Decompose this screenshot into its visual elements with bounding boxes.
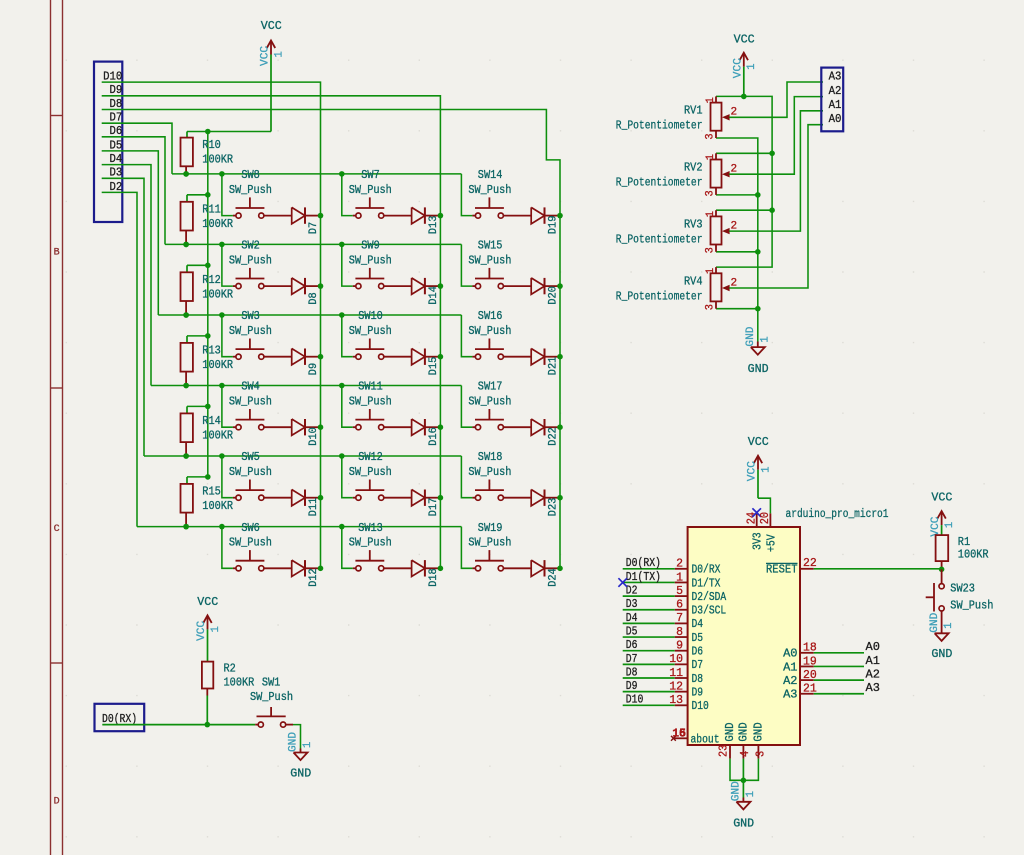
diode D19 — [531, 207, 544, 223]
pin 11 D8 — [675, 677, 688, 679]
svg-text:D8: D8 — [626, 665, 638, 679]
pin 7 D4 — [675, 622, 688, 624]
pin 3 GND — [757, 745, 759, 759]
node D22 cathode junction — [557, 424, 563, 430]
wire D6 — [623, 650, 675, 652]
diode D20 — [531, 278, 544, 294]
node VCC feed junction — [205, 129, 211, 135]
switch SW2 — [222, 244, 233, 286]
svg-text:1: 1 — [273, 51, 285, 58]
svg-text:SW17: SW17 — [478, 380, 503, 394]
node RESET junction — [939, 567, 945, 573]
svg-text:SW2: SW2 — [241, 239, 260, 253]
svg-text:SW_Push: SW_Push — [468, 536, 511, 550]
node RV3 pin3 junction — [755, 249, 761, 255]
pin 9 D6 — [675, 650, 688, 652]
svg-text:RESET: RESET — [766, 563, 798, 577]
wire D4 — [623, 622, 675, 624]
diode D14 — [412, 278, 425, 294]
pin 4 GND — [742, 745, 744, 759]
pin 1 D1/TX — [675, 581, 688, 583]
svg-text:7: 7 — [676, 612, 683, 625]
svg-text:D14: D14 — [428, 286, 440, 305]
node D9 cathode junction — [318, 354, 324, 360]
resistor R15 — [186, 477, 188, 484]
node D23 cathode junction — [557, 495, 563, 501]
node D15 cathode junction — [438, 354, 444, 360]
wire RV4 pin3 — [716, 308, 758, 310]
resistor R14 — [186, 406, 188, 413]
svg-text:A0: A0 — [829, 112, 842, 126]
connector J1 (D10-D2 header box) — [94, 62, 122, 222]
power symbol GND (SW23) — [941, 629, 943, 633]
diode D11 — [292, 490, 305, 506]
wire GND pins join — [730, 759, 758, 781]
pin 23 GND — [729, 745, 731, 759]
svg-text:RV3: RV3 — [684, 218, 703, 232]
svg-text:D1/TX: D1/TX — [692, 576, 721, 590]
svg-text:4: 4 — [739, 751, 752, 757]
svg-text:100KR: 100KR — [202, 499, 233, 513]
svg-text:D10: D10 — [626, 693, 644, 707]
svg-text:R_Potentiometer: R_Potentiometer — [616, 176, 703, 190]
node D11 cathode junction — [318, 495, 324, 501]
svg-text:SW12: SW12 — [358, 450, 383, 464]
svg-text:SW19: SW19 — [478, 521, 503, 535]
svg-text:SW5: SW5 — [241, 450, 260, 464]
switch SW13 — [342, 527, 353, 569]
svg-text:D10: D10 — [308, 427, 320, 446]
svg-text:GND: GND — [752, 722, 766, 741]
wire D0(RX) to SW1 — [102, 724, 255, 726]
diode D7 — [292, 207, 305, 223]
pin 6 D3/SCL — [675, 609, 688, 611]
pin 19 A1 — [800, 665, 814, 667]
svg-text:23: 23 — [718, 745, 731, 757]
svg-text:SW_Push: SW_Push — [349, 183, 392, 197]
svg-text:1: 1 — [746, 63, 758, 70]
switch SW5 — [222, 456, 233, 498]
svg-text:SW_Push: SW_Push — [950, 598, 993, 612]
svg-text:D5: D5 — [626, 624, 638, 638]
svg-text:1: 1 — [943, 622, 955, 629]
svg-text:SW_Push: SW_Push — [468, 324, 511, 338]
diode D10 — [292, 419, 305, 435]
svg-text:SW6: SW6 — [241, 521, 260, 535]
svg-text:VCC: VCC — [261, 19, 282, 33]
pin 2 D0/RX — [675, 568, 688, 570]
switch SW23 — [941, 569, 943, 583]
svg-text:100KR: 100KR — [224, 676, 255, 690]
wire SW1 to GND — [293, 725, 301, 749]
svg-text:D0(RX): D0(RX) — [626, 556, 661, 570]
svg-text:SW14: SW14 — [478, 168, 503, 182]
node RV4 pin3 junction — [755, 306, 761, 312]
resistor R12 — [186, 265, 188, 272]
svg-text:D7: D7 — [692, 658, 704, 672]
svg-text:6: 6 — [676, 599, 683, 612]
svg-text:D2/SDA: D2/SDA — [692, 590, 727, 604]
svg-text:3: 3 — [754, 751, 767, 757]
svg-text:SW_Push: SW_Push — [349, 254, 392, 268]
resistor R10 — [186, 132, 188, 138]
hier label D0(RX) box — [95, 704, 145, 731]
svg-text:SW23: SW23 — [950, 582, 975, 596]
svg-text:VCC: VCC — [930, 516, 942, 536]
svg-text:100KR: 100KR — [202, 217, 233, 231]
wire VCC to R10 — [187, 131, 271, 133]
wire VCC to pin 20 — [758, 498, 770, 513]
connector J2 (A3-A0 box) — [821, 68, 843, 132]
row 3 wire — [158, 314, 461, 316]
svg-text:A3: A3 — [866, 681, 880, 695]
svg-text:1: 1 — [210, 626, 222, 633]
svg-text:A3: A3 — [829, 69, 842, 83]
potentiometer RV1 — [715, 96, 717, 102]
wire RV1 pin1 / VCC rail — [716, 96, 772, 267]
svg-text:D8: D8 — [692, 672, 704, 686]
pin 18 A0 — [800, 652, 814, 654]
svg-text:D21: D21 — [547, 356, 559, 375]
wire A0 — [814, 652, 864, 654]
wire GND rail (pots) — [716, 138, 758, 342]
svg-text:5: 5 — [676, 585, 683, 598]
svg-text:A1: A1 — [866, 654, 880, 668]
resistor R11 — [186, 195, 188, 202]
wire A3 — [814, 693, 864, 695]
pin 5 D2/SDA — [675, 595, 688, 597]
svg-text:D9: D9 — [692, 685, 704, 699]
wire RV3 pin3 — [716, 251, 758, 253]
diode D23 — [531, 490, 544, 506]
svg-text:D: D — [54, 797, 60, 808]
svg-text:3: 3 — [705, 133, 717, 139]
svg-text:D10: D10 — [692, 699, 709, 713]
switch SW10 — [342, 315, 353, 357]
wire RESET to R1/SW23 — [814, 568, 942, 570]
switch SW3 — [222, 315, 233, 357]
svg-text:D22: D22 — [547, 427, 559, 446]
svg-text:D6: D6 — [692, 645, 704, 659]
row 5 wire — [144, 455, 461, 457]
node RV3 pin1 junction — [769, 207, 775, 213]
power symbol GND (arduino) — [742, 798, 744, 802]
svg-text:D15: D15 — [428, 357, 440, 376]
svg-text:GND: GND — [288, 732, 300, 752]
svg-text:SW3: SW3 — [241, 309, 260, 323]
svg-text:GND: GND — [929, 612, 941, 632]
wire RV1 wiper to A-box — [729, 82, 823, 117]
VCC tap junction — [205, 192, 211, 198]
node D21 cathode junction — [557, 354, 563, 360]
switch SW15 — [461, 244, 472, 286]
VCC tap junction — [205, 333, 211, 339]
row 6 wire — [137, 526, 461, 528]
svg-text:GND: GND — [731, 781, 743, 801]
wire D6 to row 2 — [102, 137, 165, 245]
node D24 cathode junction — [557, 566, 563, 572]
svg-text:1: 1 — [944, 522, 956, 529]
pin 20 A2 — [800, 679, 814, 681]
diode D21 — [531, 349, 544, 365]
row 2 wire — [165, 243, 461, 245]
svg-text:GND: GND — [745, 326, 757, 346]
switch SW6 — [222, 527, 233, 569]
svg-text:100KR: 100KR — [202, 428, 233, 442]
VCC tap junction — [205, 263, 211, 269]
svg-text:SW_Push: SW_Push — [250, 690, 293, 704]
IC U1 arduino_pro_micro1 — [688, 527, 800, 745]
svg-text:A2: A2 — [783, 674, 797, 688]
wire RV2 wiper to A-box — [729, 97, 823, 175]
wire D10 to column1 cathode bus — [102, 82, 321, 568]
svg-text:C: C — [54, 524, 60, 535]
svg-text:3: 3 — [705, 247, 717, 253]
svg-text:A3: A3 — [783, 688, 797, 702]
svg-text:D9: D9 — [308, 363, 320, 375]
svg-text:VCC: VCC — [260, 46, 272, 66]
svg-text:RV4: RV4 — [684, 274, 703, 288]
pin 24 3V3 (no connect) — [756, 513, 758, 527]
node D12 cathode junction — [318, 566, 324, 572]
diode D18 — [412, 560, 425, 576]
switch SW19 — [461, 527, 472, 569]
svg-text:SW_Push: SW_Push — [468, 183, 511, 197]
svg-text:B: B — [54, 248, 60, 259]
svg-text:D3: D3 — [626, 597, 638, 611]
svg-text:VCC: VCC — [734, 32, 755, 46]
wire D8 — [623, 677, 675, 679]
switch SW4 — [222, 386, 233, 428]
switch SW16 — [461, 315, 472, 357]
diode D12 — [292, 560, 305, 576]
svg-text:SW_Push: SW_Push — [468, 395, 511, 409]
svg-text:6: 6 — [679, 728, 686, 741]
svg-text:VCC: VCC — [196, 620, 208, 640]
switch SW11 — [342, 386, 353, 428]
svg-text:VCC: VCC — [748, 435, 769, 449]
resistor R2 — [202, 662, 213, 689]
svg-text:9: 9 — [676, 640, 683, 653]
switch SW17 — [461, 386, 472, 428]
svg-text:SW_Push: SW_Push — [229, 254, 272, 268]
pin 21 A3 — [800, 693, 814, 695]
diode D15 — [412, 349, 425, 365]
VCC feed vertical wire — [207, 132, 209, 477]
svg-text:SW_Push: SW_Push — [229, 324, 272, 338]
svg-text:A0: A0 — [783, 647, 797, 661]
pin 10 D7 — [675, 663, 688, 665]
diode D13 — [412, 207, 425, 223]
svg-text:GND: GND — [733, 816, 754, 830]
svg-text:R2: R2 — [224, 661, 236, 675]
svg-text:SW_Push: SW_Push — [229, 183, 272, 197]
svg-text:GND: GND — [748, 362, 769, 376]
svg-text:SW_Push: SW_Push — [468, 465, 511, 479]
wire D5 — [623, 636, 675, 638]
node D8 cathode junction — [318, 283, 324, 289]
svg-text:SW16: SW16 — [478, 309, 503, 323]
diode D8 — [292, 278, 305, 294]
row 1 wire — [172, 173, 461, 175]
svg-text:A1: A1 — [783, 660, 797, 674]
wire RV3 wiper to A-box — [729, 111, 823, 231]
svg-text:D4: D4 — [692, 617, 704, 631]
wire A2 — [814, 679, 864, 681]
svg-text:SW_Push: SW_Push — [229, 395, 272, 409]
svg-text:1: 1 — [705, 97, 717, 104]
svg-text:100KR: 100KR — [958, 548, 989, 562]
wire D4 to row 4 — [102, 165, 151, 386]
svg-text:arduino_pro_micro1: arduino_pro_micro1 — [786, 507, 889, 521]
node D16 cathode junction — [438, 424, 444, 430]
wire RV2 pin3 — [716, 194, 758, 196]
wire D7 to row 1 — [102, 123, 172, 174]
svg-text:D20: D20 — [547, 286, 559, 305]
diode D16 — [412, 419, 425, 435]
node D7 cathode junction — [318, 213, 324, 219]
resistor R1 — [936, 535, 949, 561]
svg-text:100KR: 100KR — [202, 287, 233, 301]
row 4 wire — [151, 385, 461, 387]
svg-text:D3/SCL: D3/SCL — [692, 604, 727, 618]
svg-text:D23: D23 — [547, 498, 559, 517]
wire D2 — [623, 595, 675, 597]
svg-text:3V3: 3V3 — [751, 532, 765, 550]
potentiometer RV2 — [715, 153, 717, 159]
svg-text:D1(TX): D1(TX) — [626, 570, 661, 584]
wire D9 to column2 cathode bus — [102, 96, 441, 569]
node D18 cathode junction — [438, 566, 444, 572]
switch SW9 — [342, 244, 353, 286]
pin 20 +5V — [769, 513, 771, 527]
svg-text:SW_Push: SW_Push — [349, 395, 392, 409]
switch SW7 — [342, 174, 353, 216]
node D19 cathode junction — [557, 213, 563, 219]
power symbol GND (SW1) — [300, 749, 302, 753]
svg-text:SW18: SW18 — [478, 450, 503, 464]
svg-text:SW_Push: SW_Push — [229, 465, 272, 479]
svg-text:1: 1 — [676, 571, 683, 584]
svg-text:GND: GND — [290, 766, 311, 780]
svg-text:SW_Push: SW_Push — [349, 465, 392, 479]
switch SW8 — [222, 174, 233, 216]
wire A1 — [814, 665, 864, 667]
wire D10 — [623, 704, 675, 706]
svg-text:D6: D6 — [626, 638, 638, 652]
svg-text:A0: A0 — [866, 640, 880, 654]
svg-text:RV1: RV1 — [684, 104, 703, 118]
wire D0(RX) — [623, 568, 675, 570]
VCC tap junction — [205, 404, 211, 410]
svg-text:D7: D7 — [308, 222, 320, 234]
svg-text:A2: A2 — [866, 668, 880, 682]
svg-text:1: 1 — [302, 741, 314, 748]
potentiometer RV4 — [715, 267, 717, 273]
svg-text:D0/RX: D0/RX — [692, 563, 721, 577]
potentiometer RV3 — [715, 210, 717, 216]
switch SW1 — [255, 724, 258, 726]
VCC tap junction — [205, 474, 211, 480]
wire RV2 pin1 — [716, 152, 772, 154]
svg-text:SW_Push: SW_Push — [349, 536, 392, 550]
svg-text:VCC: VCC — [747, 461, 759, 481]
power symbol GND (pots) — [757, 342, 759, 348]
node VCC-RV1 junction — [741, 94, 747, 100]
svg-text:20: 20 — [759, 512, 772, 524]
svg-text:SW_Push: SW_Push — [229, 536, 272, 550]
node D14 cathode junction — [438, 283, 444, 289]
node D10 cathode junction — [318, 424, 324, 430]
svg-text:D12: D12 — [308, 568, 320, 587]
svg-text:D13: D13 — [428, 216, 440, 235]
wire RV4 wiper to A-box — [729, 125, 823, 288]
svg-text:SW11: SW11 — [358, 380, 383, 394]
no-connect marker D1(TX) — [618, 578, 627, 587]
svg-text:D19: D19 — [547, 216, 559, 235]
switch SW12 — [342, 456, 353, 498]
wire D8 to column3 cathode bus — [102, 110, 560, 569]
svg-text:2: 2 — [676, 558, 683, 571]
wire D1(TX) — [623, 581, 675, 583]
svg-text:SW15: SW15 — [478, 239, 503, 253]
svg-text:VCC: VCC — [732, 58, 744, 78]
wire D5 to row 3 — [102, 151, 159, 315]
svg-text:1: 1 — [745, 791, 757, 798]
node RV2 pin3 junction — [755, 192, 761, 198]
switch SW14 — [461, 174, 472, 216]
svg-text:1: 1 — [705, 268, 717, 275]
svg-text:SW_Push: SW_Push — [349, 324, 392, 338]
svg-text:R_Potentiometer: R_Potentiometer — [616, 119, 703, 133]
svg-text:R14: R14 — [202, 414, 221, 428]
node RV2 pin1 junction — [769, 151, 775, 157]
pin 8 D5 — [675, 636, 688, 638]
svg-text:about: about — [691, 732, 720, 746]
svg-text:100KR: 100KR — [202, 358, 233, 372]
svg-text:SW4: SW4 — [241, 380, 260, 394]
pin 13 D10 — [675, 704, 688, 706]
node D20 cathode junction — [557, 283, 563, 289]
svg-text:R11: R11 — [202, 202, 221, 216]
svg-text:D4: D4 — [626, 611, 638, 625]
svg-text:100KR: 100KR — [202, 153, 233, 167]
svg-text:GND: GND — [737, 722, 751, 741]
svg-text:D9: D9 — [626, 679, 638, 693]
diode D9 — [292, 349, 305, 365]
svg-text:D8: D8 — [308, 292, 320, 304]
svg-text:SW9: SW9 — [361, 239, 380, 253]
wire D7 — [623, 663, 675, 665]
svg-text:SW13: SW13 — [358, 521, 383, 535]
wire D3 to row 5 — [102, 178, 144, 456]
svg-text:1: 1 — [705, 211, 717, 218]
wire RV3 pin1 — [716, 209, 772, 211]
pin 12 D9 — [675, 691, 688, 693]
svg-text:SW1: SW1 — [262, 676, 281, 690]
svg-text:1: 1 — [705, 154, 717, 161]
svg-text:R15: R15 — [202, 485, 221, 499]
svg-text:A2: A2 — [829, 84, 842, 98]
svg-text:1: 1 — [759, 336, 771, 343]
svg-text:VCC: VCC — [931, 491, 952, 505]
wire D3 — [623, 609, 675, 611]
svg-text:GND: GND — [931, 647, 952, 661]
svg-text:VCC: VCC — [197, 595, 218, 609]
svg-text:D5: D5 — [692, 631, 704, 645]
svg-text:SW7: SW7 — [361, 168, 380, 182]
svg-text:3: 3 — [705, 304, 717, 310]
